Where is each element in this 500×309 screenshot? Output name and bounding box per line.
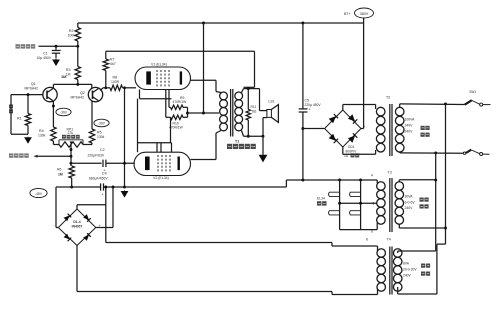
- resistor R11: [246, 89, 257, 138]
- transformer T3 secondary: [377, 171, 392, 230]
- svg-text:+: +: [102, 193, 104, 197]
- label balance-adjust: [62, 135, 80, 139]
- wire bus D to T4: [77, 292, 378, 295]
- wire Q2 collector: [91, 101, 93, 129]
- wire heater center tap: [338, 202, 377, 205]
- svg-text:470R/1W: 470R/1W: [169, 126, 184, 130]
- heater filaments EL34: [329, 192, 361, 215]
- switch SW1: [465, 90, 491, 106]
- wire V1 cathode drop: [140, 90, 172, 99]
- wire bridge top ac: [77, 205, 106, 209]
- svg-text:220μF/63V: 220μF/63V: [88, 153, 105, 157]
- transformer T3 core: [390, 178, 392, 232]
- resistor R3: [66, 46, 81, 84]
- node input marks: [9, 105, 13, 114]
- wire mains N: [400, 151, 464, 154]
- svg-text:680μF/450V: 680μF/450V: [89, 176, 108, 180]
- wire bias minus drop: [56, 187, 58, 228]
- label T1 output transformer: [227, 140, 256, 149]
- wire B+ drop to T1: [202, 23, 205, 114]
- wire DD1 top ac: [343, 105, 376, 111]
- label R3 value mark: [61, 74, 67, 79]
- wire heater vertical 2: [360, 180, 362, 230]
- resistor R2: [68, 23, 81, 46]
- svg-text:R3: R3: [66, 68, 71, 72]
- svg-text:Q2: Q2: [80, 91, 85, 95]
- svg-text:8: 8: [366, 238, 368, 242]
- svg-text:+: +: [60, 49, 62, 53]
- wire secondary bottom: [244, 118, 267, 138]
- bridge rectifier DD1: [321, 110, 366, 147]
- svg-text:1M: 1M: [66, 73, 71, 77]
- tube V1 EL34: [135, 63, 191, 90]
- node other-channel: [9, 153, 71, 157]
- ground speaker: [259, 136, 268, 162]
- capacitor C2: [71, 148, 135, 172]
- label T2 ratings: [405, 118, 430, 137]
- label T3 pins: [371, 174, 375, 234]
- svg-text:LS1: LS1: [269, 99, 275, 103]
- node -36V left: [56, 108, 71, 116]
- wire coupling box to V2: [138, 99, 172, 153]
- svg-text:20-0-20V: 20-0-20V: [403, 268, 417, 272]
- svg-text:8VA: 8VA: [403, 262, 410, 266]
- svg-text:30VA: 30VA: [405, 195, 414, 199]
- transformer T4 core: [390, 247, 392, 295]
- svg-text:1M: 1M: [61, 74, 67, 79]
- wire Q2 collector out: [100, 86, 107, 90]
- wire long ground bus: [112, 179, 378, 189]
- svg-text:T4: T4: [387, 238, 391, 242]
- wire bus left: [56, 186, 101, 188]
- wire mains L1: [400, 102, 465, 105]
- svg-text:R5: R5: [97, 131, 102, 135]
- svg-text:5: 5: [373, 202, 375, 206]
- tube V2 EL34: [134, 152, 191, 180]
- svg-text:R1: R1: [17, 117, 22, 121]
- svg-text:240V: 240V: [405, 124, 414, 128]
- svg-text:-45V: -45V: [35, 192, 43, 196]
- potentiometer RP1: [53, 128, 92, 148]
- svg-text:MPSA42: MPSA42: [25, 87, 38, 91]
- wire V1 plate out: [191, 80, 217, 91]
- svg-text:240V: 240V: [403, 274, 412, 278]
- wire screens join: [186, 107, 219, 117]
- svg-text:240V: 240V: [405, 130, 414, 134]
- ground below C1: [52, 59, 60, 66]
- svg-text:100VA: 100VA: [405, 118, 416, 122]
- transistor Q2: [71, 87, 103, 101]
- capacitor C5: [299, 23, 322, 180]
- svg-text:100R: 100R: [111, 80, 120, 84]
- transformer T4 primary: [393, 249, 402, 294]
- svg-text:R6: R6: [57, 168, 61, 172]
- svg-text:T2: T2: [386, 96, 390, 100]
- wire bus C to T4: [106, 243, 378, 247]
- svg-text:T3: T3: [388, 171, 392, 175]
- svg-text:380V: 380V: [360, 12, 369, 16]
- svg-text:130k: 130k: [97, 135, 105, 139]
- node input to-other-channel: [16, 44, 80, 48]
- svg-text:BT+: BT+: [344, 12, 351, 16]
- svg-text:6: 6: [371, 230, 373, 234]
- label EL34 heaters: [317, 196, 327, 205]
- bridge rectifier D1-4: [53, 209, 101, 246]
- ground center: [121, 191, 129, 198]
- label DD1: [344, 145, 359, 158]
- svg-text:+: +: [309, 108, 311, 112]
- label T3 ratings: [405, 195, 429, 211]
- svg-text:R11: R11: [251, 105, 257, 109]
- svg-text:C5: C5: [305, 99, 310, 103]
- svg-text:100k: 100k: [68, 34, 76, 38]
- wire bridge bottom drop: [76, 246, 78, 292]
- svg-text:V1 (EL34): V1 (EL34): [151, 63, 167, 67]
- resistor R7: [103, 51, 116, 88]
- transformer T1 primary: [216, 92, 227, 134]
- wire RP1 wiper: [70, 145, 73, 167]
- resistor R8: [103, 76, 136, 91]
- resistor R5: [89, 129, 104, 145]
- label T4 ratings: [403, 262, 430, 278]
- wire heater bottom: [340, 229, 378, 231]
- transformer T4 secondary: [366, 238, 391, 295]
- resistor R9: [169, 96, 188, 110]
- svg-text:130k: 130k: [38, 134, 46, 138]
- wire Q1 base: [11, 93, 43, 96]
- wire DD1 left: [303, 128, 325, 130]
- switch SW2: [463, 150, 489, 156]
- wire V1 screen drops: [166, 90, 169, 118]
- transformer T3 primary: [395, 180, 445, 228]
- svg-text:EL34: EL34: [317, 196, 325, 200]
- svg-text:10μ 450V: 10μ 450V: [37, 56, 52, 60]
- svg-text:C2: C2: [100, 148, 105, 152]
- svg-text:MPSA42: MPSA42: [71, 96, 84, 100]
- wire bridge plus: [96, 187, 113, 228]
- svg-text:470R/1W: 470R/1W: [173, 100, 188, 104]
- resistor R1: [17, 95, 31, 135]
- speaker LS1: [267, 99, 279, 122]
- node -36V right: [94, 119, 109, 127]
- svg-text:4k7: 4k7: [110, 62, 116, 66]
- transformer T2 secondary: [376, 107, 385, 152]
- svg-text:Q1: Q1: [31, 82, 36, 86]
- svg-text:D1-4: D1-4: [73, 220, 80, 224]
- transformer T1 core: [231, 89, 233, 137]
- svg-text:6-0-6V: 6-0-6V: [405, 200, 416, 204]
- wire V2 plate out: [191, 133, 217, 160]
- node -45V: [30, 188, 47, 197]
- svg-text:IN4007: IN4007: [72, 225, 83, 229]
- wire coupling drop: [123, 86, 126, 188]
- capacitor C1: [37, 46, 62, 60]
- wire heater vertical 1: [339, 180, 341, 230]
- transformer T2 primary: [386, 96, 404, 153]
- svg-text:R2: R2: [69, 29, 74, 33]
- wire mains vertical B: [398, 104, 447, 294]
- svg-text:-36V: -36V: [60, 111, 68, 115]
- svg-text:SW1: SW1: [469, 90, 476, 94]
- wire DD1 plus riser: [361, 23, 364, 129]
- wire Q1 collector: [52, 101, 55, 127]
- wire riser C4 to bias bridge: [104, 186, 107, 243]
- svg-text:800PIV: 800PIV: [346, 149, 358, 153]
- resistor R10: [166, 115, 188, 130]
- capacitor C4: [89, 171, 125, 196]
- resistor R4: [38, 127, 56, 145]
- ground below R1: [24, 137, 32, 144]
- transformer T1 secondary: [235, 89, 244, 137]
- svg-text:-36V: -36V: [98, 122, 106, 126]
- wire DD1 bottom ac: [343, 147, 376, 154]
- wire mains vertical A: [398, 153, 437, 251]
- svg-text:T1: T1: [235, 140, 239, 144]
- svg-text:R4: R4: [39, 129, 44, 133]
- svg-text:8Ω: 8Ω: [252, 110, 257, 114]
- svg-text:4: 4: [371, 174, 373, 178]
- svg-text:27k: 27k: [68, 131, 74, 135]
- svg-text:V2 (EL34): V2 (EL34): [153, 176, 169, 180]
- node BT+ 380V: [344, 8, 374, 23]
- wire input left drop: [11, 95, 28, 135]
- svg-text:C4: C4: [102, 171, 107, 175]
- svg-text:1M: 1M: [58, 173, 63, 177]
- svg-text:220μ 450V: 220μ 450V: [305, 103, 322, 107]
- wire feedback top: [106, 51, 255, 87]
- svg-text:240V: 240V: [405, 206, 414, 210]
- wire emitter rail: [53, 83, 91, 88]
- transformer T2 core: [390, 104, 392, 156]
- wire secondary top: [244, 87, 267, 110]
- resistor R6: [57, 166, 74, 188]
- transistor Q1: [25, 82, 58, 102]
- wire B+ rail: [78, 22, 364, 25]
